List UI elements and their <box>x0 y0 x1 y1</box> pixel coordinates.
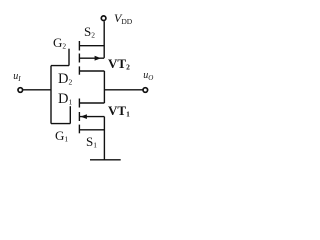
wire gate G2 to riser <box>51 65 69 67</box>
label VT1 <box>108 103 130 119</box>
transistor VT1 channel middle dash <box>78 112 80 121</box>
wire drain node D2-D1 vertical <box>103 71 105 103</box>
label G2 <box>53 35 66 51</box>
transistor VT1 source lead S1 <box>80 129 105 131</box>
label G1 <box>55 128 68 144</box>
arrow VT1 bulk (points left) <box>81 114 87 119</box>
label D2 <box>58 71 72 88</box>
transistor VT2 source lead S2 <box>80 45 105 47</box>
wire gate G1 to riser <box>51 123 70 125</box>
wire output <box>104 89 142 91</box>
transistor VT2 channel bottom dash <box>78 66 80 74</box>
label S1 <box>86 134 97 150</box>
transistor VT1 bulk lead with arrow <box>80 116 105 118</box>
transistor VT1 gate bar G1 <box>69 106 71 123</box>
transistor VT1 drain lead D1 <box>80 102 105 104</box>
terminal VDD <box>101 16 106 21</box>
label D1 <box>58 91 72 108</box>
label VDD <box>114 11 132 26</box>
transistor VT2 drain lead D2 <box>80 70 105 72</box>
transistor VT1 channel top dash <box>78 99 80 108</box>
transistor VT2 gate bar G2 <box>68 49 70 66</box>
transistor VT1 channel bottom dash <box>78 125 80 134</box>
ground bar <box>90 159 121 161</box>
wire VDD vertical <box>103 21 105 58</box>
transistor VT2 channel middle dash <box>78 54 80 63</box>
terminal uO <box>143 88 148 93</box>
transistor VT2 channel top dash <box>78 41 80 51</box>
wire input <box>23 89 51 91</box>
wire input riser <box>50 66 52 124</box>
label S2 <box>84 24 95 40</box>
label uO <box>143 70 153 82</box>
terminal uI <box>18 88 23 93</box>
label uI <box>13 71 20 83</box>
arrow VT2 bulk (points right) <box>95 56 101 61</box>
transistor VT2 bulk lead with arrow <box>80 57 104 59</box>
wire lower vertical to ground <box>103 117 105 160</box>
label VT2 <box>108 56 130 72</box>
